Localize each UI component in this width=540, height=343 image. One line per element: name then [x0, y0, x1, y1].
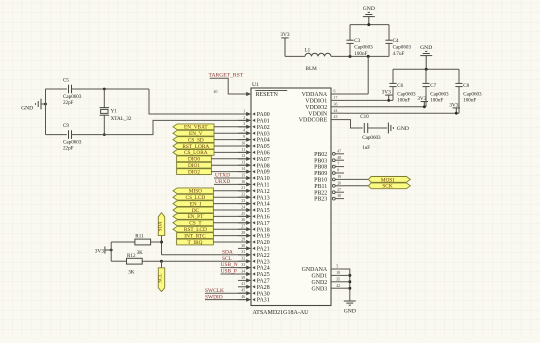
svg-text:GND1: GND1	[311, 274, 327, 280]
svg-text:PA10: PA10	[257, 176, 270, 182]
svg-text:37: 37	[337, 188, 341, 192]
U1 pin 23 PA14	[238, 199, 270, 208]
svg-text:9: 9	[243, 135, 245, 139]
wire XOUT32 to PA01	[72, 120, 247, 134]
svg-text:31: 31	[241, 250, 245, 254]
U1 pin 35 GND2	[311, 277, 344, 286]
U1 pin 10 PA05	[238, 141, 270, 150]
svg-text:PA24: PA24	[257, 266, 270, 272]
svg-text:36: 36	[334, 102, 338, 106]
U1 pin 42 GND3	[311, 284, 344, 293]
svg-text:2: 2	[243, 116, 245, 120]
svg-text:27: 27	[241, 225, 245, 229]
U1 pin 40 RESETN	[214, 90, 288, 98]
svg-text:8: 8	[337, 169, 339, 173]
resistor R12	[127, 253, 143, 275]
capacitor C5	[63, 78, 82, 106]
svg-text:29: 29	[241, 237, 245, 241]
ground GND (decoupling)	[420, 45, 432, 69]
U1 pin 29 PA20	[238, 237, 270, 246]
svg-text:PA18: PA18	[257, 227, 270, 233]
svg-text:C8: C8	[463, 83, 469, 89]
wire RST_LORA to pin	[214, 145, 247, 147]
wire EN_VBAT to pin	[214, 126, 247, 128]
U1 pin 38 PB23	[314, 194, 344, 203]
svg-text:4.7uF: 4.7uF	[393, 51, 405, 57]
svg-text:PA27: PA27	[257, 279, 270, 285]
svg-text:GND2: GND2	[311, 280, 327, 286]
svg-text:6: 6	[334, 90, 336, 94]
U1 pin 11 PA06	[238, 148, 270, 157]
svg-text:C5: C5	[63, 78, 69, 84]
svg-text:Y1: Y1	[111, 108, 118, 114]
wire top rail right	[72, 88, 150, 90]
wire SWDIO to PA31	[205, 299, 247, 301]
wire R11 left lead	[111, 241, 135, 243]
svg-text:GND: GND	[344, 308, 356, 314]
ground GND (bottom)	[344, 301, 356, 314]
junction GND rail	[367, 23, 370, 26]
wire DIO1 to pin	[211, 164, 246, 166]
svg-text:PA31: PA31	[257, 298, 270, 304]
svg-text:13: 13	[241, 161, 245, 165]
svg-text:EN_I: EN_I	[190, 201, 202, 207]
port CS_LCD	[173, 194, 213, 201]
svg-text:DIO0: DIO0	[188, 157, 200, 163]
svg-text:T_IRQ: T_IRQ	[187, 240, 202, 246]
svg-text:26: 26	[241, 218, 245, 222]
capacitor C3	[346, 25, 373, 58]
svg-text:PB10: PB10	[314, 178, 327, 184]
svg-text:PB08: PB08	[314, 165, 327, 171]
svg-text:R12: R12	[127, 253, 136, 259]
svg-text:EN_PT: EN_PT	[187, 214, 204, 220]
svg-text:PA05: PA05	[257, 144, 270, 150]
svg-text:100nF: 100nF	[397, 98, 410, 104]
U1 pin 44 VDDIN	[308, 109, 344, 118]
svg-text:11: 11	[241, 148, 245, 152]
U1 pin 8 PB09	[314, 169, 344, 178]
wire CS_LORA to pin	[214, 151, 247, 153]
U1 pin 25 PA16	[238, 212, 270, 221]
svg-text:R11: R11	[135, 233, 144, 239]
capacitor C7	[422, 69, 449, 107]
U1 pin 12 PA07	[238, 154, 270, 163]
svg-text:28: 28	[241, 231, 245, 235]
U1 pin 37 PB22	[314, 188, 344, 197]
svg-text:24: 24	[241, 205, 245, 209]
ground GND (top)	[363, 6, 375, 25]
U1 pin 45 PA30	[238, 289, 270, 298]
svg-text:PA21: PA21	[257, 247, 270, 253]
U1 pin 39 PA27	[238, 276, 270, 285]
svg-text:18: 18	[336, 271, 340, 275]
svg-text:5: 5	[336, 265, 338, 269]
power 3V3 (C7)	[417, 96, 428, 107]
U1 pin 30 PA21	[238, 244, 270, 253]
svg-text:17: 17	[334, 96, 338, 100]
power 3V3 (pull-ups)	[95, 246, 111, 254]
svg-text:32: 32	[241, 257, 245, 261]
U1 pin 4 PA03	[238, 129, 270, 138]
svg-text:1uF: 1uF	[362, 145, 370, 151]
svg-text:L1: L1	[305, 47, 311, 53]
svg-text:RST_LORA: RST_LORA	[182, 144, 209, 150]
svg-text:41: 41	[241, 282, 245, 286]
junction GND1	[348, 274, 351, 277]
svg-text:4: 4	[243, 129, 245, 133]
svg-text:PA15: PA15	[257, 208, 270, 214]
svg-text:15: 15	[241, 173, 245, 177]
wire bottom rail left	[46, 134, 67, 136]
svg-text:3K: 3K	[128, 269, 135, 275]
wire GNDANA to bus	[344, 269, 350, 301]
svg-text:45: 45	[241, 289, 245, 293]
wire GND2 to bus	[344, 281, 350, 283]
port RST_LORA	[173, 143, 214, 150]
port EN_I	[173, 201, 213, 208]
svg-text:PB02: PB02	[314, 152, 327, 158]
svg-text:PA13: PA13	[257, 195, 270, 201]
junction 3V3-C8	[455, 112, 458, 115]
svg-text:PB09: PB09	[314, 171, 327, 177]
ground GND (crystal, left)	[21, 99, 45, 112]
svg-text:VDDIO2: VDDIO2	[305, 105, 327, 111]
U1 pin 14 PA09	[238, 167, 270, 176]
svg-text:GND: GND	[420, 45, 432, 51]
crystal Y1 XTAL_32	[100, 108, 132, 122]
wire INT_RTC to pin	[213, 235, 246, 237]
svg-text:EN_VBAT: EN_VBAT	[184, 125, 208, 131]
port MISO	[173, 188, 213, 195]
svg-text:34: 34	[241, 269, 245, 273]
svg-text:100nF: 100nF	[430, 98, 443, 104]
capacitor C8	[455, 69, 482, 113]
svg-text:23: 23	[241, 199, 245, 203]
wire SDA to PA22	[162, 254, 247, 256]
junction 3V3-C6	[387, 99, 390, 102]
svg-text:35: 35	[336, 277, 340, 281]
port EN_PT	[173, 214, 213, 221]
U1 pin 31 PA22	[238, 250, 270, 259]
junction R11-SDA	[160, 241, 163, 244]
power 3V3 (top left)	[280, 32, 290, 56]
svg-text:3V3: 3V3	[417, 96, 427, 102]
svg-text:INT_RTC: INT_RTC	[184, 233, 206, 239]
U1 pin 18 GND1	[311, 271, 344, 280]
port DC	[173, 207, 213, 214]
wire R12 left lead	[111, 260, 126, 262]
port CS_T	[173, 220, 213, 227]
IC U1 ATSAMD21G18A-AU body	[251, 82, 331, 316]
svg-text:3V3: 3V3	[95, 248, 105, 254]
junction crystal bottom	[103, 133, 106, 136]
port SDA (vertical)	[158, 213, 164, 236]
svg-text:SCL: SCL	[222, 256, 232, 262]
svg-text:7: 7	[337, 162, 339, 166]
U1 pin 2 PA01	[238, 116, 270, 125]
svg-text:PA03: PA03	[257, 131, 270, 137]
port EN_V	[173, 130, 214, 137]
U1 pin 17 VDDIO1	[305, 96, 344, 105]
svg-text:PA25: PA25	[257, 272, 270, 278]
svg-text:TARGET_RST: TARGET_RST	[209, 73, 244, 79]
junction crystal top	[103, 88, 106, 91]
svg-text:PA00: PA00	[257, 112, 270, 118]
svg-text:CS_LCD: CS_LCD	[186, 195, 206, 201]
svg-text:GND: GND	[21, 106, 33, 112]
svg-text:PA19: PA19	[257, 234, 270, 240]
U1 pin 7 PB08	[314, 162, 344, 171]
svg-text:PA20: PA20	[257, 240, 270, 246]
U1 pin 16 PA11	[238, 180, 270, 189]
wire SCL flag stem	[161, 261, 163, 268]
svg-text:Cap0603: Cap0603	[463, 91, 482, 97]
U1 pin 21 PA12	[238, 186, 270, 195]
svg-text:10: 10	[241, 141, 245, 145]
capacitor C4	[385, 25, 411, 58]
svg-text:VDDIN: VDDIN	[308, 111, 328, 117]
U1 pin 9 PA04	[238, 135, 270, 144]
port RST_LCD	[173, 226, 213, 233]
svg-text:22pF: 22pF	[63, 100, 74, 106]
wire URXD to PA11	[214, 183, 247, 185]
junction decoupling GND	[425, 68, 428, 71]
wire PB11 to SCK	[344, 185, 368, 187]
svg-text:39: 39	[241, 276, 245, 280]
svg-text:GND: GND	[363, 6, 375, 12]
wire crystal top lead	[103, 89, 105, 108]
U1 pin 26 PA17	[238, 218, 270, 227]
svg-text:VDDANA: VDDANA	[302, 92, 328, 98]
resistor R11	[135, 233, 151, 256]
svg-text:PA16: PA16	[257, 215, 270, 221]
svg-text:19: 19	[337, 175, 341, 179]
svg-text:3: 3	[243, 122, 245, 126]
wire VDDIO2 rail	[344, 106, 426, 108]
junction 3V3-C7	[423, 105, 426, 108]
wire SDA flag stem	[161, 236, 163, 255]
U1 pin 41 PA28	[238, 282, 270, 291]
svg-text:Cap0603: Cap0603	[430, 91, 449, 97]
wire pull-up riser	[110, 242, 112, 261]
U1 pin 22 PA13	[238, 193, 270, 202]
U1 pin 3 PA02	[238, 122, 270, 131]
svg-text:38: 38	[337, 194, 341, 198]
svg-text:3V3: 3V3	[382, 90, 392, 96]
svg-text:40: 40	[214, 90, 218, 94]
svg-text:EN_V: EN_V	[189, 131, 203, 137]
svg-text:PA02: PA02	[257, 125, 270, 131]
U1 pin 47 PB02	[314, 149, 344, 158]
wire DIO0 to pin	[211, 158, 246, 160]
wire R11 right lead	[151, 241, 162, 243]
svg-text:RESETN: RESETN	[256, 92, 279, 98]
wire T_IRQ to pin	[213, 241, 246, 243]
svg-text:PA01: PA01	[257, 119, 270, 125]
svg-text:C7: C7	[430, 83, 436, 89]
svg-text:PA04: PA04	[257, 138, 270, 144]
svg-text:22: 22	[241, 193, 245, 197]
svg-text:PA30: PA30	[257, 291, 270, 297]
U1 pin 27 PA18	[238, 225, 270, 234]
U1 pin 13 PA08	[238, 161, 270, 170]
wire XIN32 to PA00	[149, 89, 246, 114]
svg-text:12: 12	[241, 154, 245, 158]
junction C3 bottom	[349, 55, 352, 58]
port CS_LORA	[173, 150, 214, 157]
svg-text:GND: GND	[397, 126, 409, 132]
wire PB10 to MOSI	[344, 178, 368, 180]
wire CS_SD to pin	[214, 139, 247, 141]
ground GND (C10, right)	[388, 123, 409, 134]
svg-text:PB03: PB03	[314, 158, 327, 164]
svg-text:30: 30	[241, 244, 245, 248]
port MOSI	[368, 177, 410, 184]
svg-text:BLM: BLM	[306, 66, 318, 72]
svg-text:MOSI: MOSI	[381, 177, 394, 183]
svg-text:C3: C3	[354, 38, 360, 44]
capacitor C6	[389, 69, 416, 103]
svg-text:GND3: GND3	[311, 286, 327, 292]
U1 pin 1 PA00	[238, 109, 270, 118]
svg-text:C6: C6	[397, 83, 403, 89]
svg-text:SDA: SDA	[222, 249, 233, 255]
power 3V3 (C8)	[449, 102, 460, 113]
U1 pin 28 PA19	[238, 231, 270, 240]
junction GND3	[348, 287, 351, 290]
wire CS_LCD to pin	[213, 196, 246, 198]
wire EN_I to pin	[213, 203, 246, 205]
svg-text:Cap0603: Cap0603	[354, 45, 373, 51]
wire EN_PT to pin	[213, 215, 246, 217]
wire crystal bottom lead	[103, 115, 105, 134]
U1 pin 24 PA15	[238, 205, 270, 214]
wire VDDIO1 rail	[344, 99, 393, 101]
svg-text:DC: DC	[192, 208, 200, 214]
svg-text:DIO2: DIO2	[188, 169, 200, 175]
svg-text:14: 14	[241, 167, 245, 171]
svg-text:16: 16	[241, 180, 245, 184]
wire L1 to C3/C4 rail	[331, 55, 389, 57]
wire C10 to GND	[368, 127, 388, 129]
wire GND1 to bus	[344, 274, 350, 276]
svg-text:C9: C9	[63, 123, 69, 129]
U1 pin 20 PB11	[314, 181, 344, 190]
port T_IRQ	[177, 239, 214, 246]
svg-text:PB11: PB11	[314, 184, 327, 190]
svg-text:100nF: 100nF	[463, 98, 476, 104]
wire TARGET_RST to RESETN	[210, 78, 247, 94]
svg-text:PA06: PA06	[257, 151, 270, 157]
svg-text:Cap0603: Cap0603	[393, 45, 412, 51]
wire R12 right lead	[142, 260, 161, 262]
wire SCL to PA23	[162, 260, 247, 262]
U1 pin 15 PA10	[238, 173, 270, 182]
svg-text:GNDANA: GNDANA	[302, 267, 328, 273]
wire VDDANA to riser	[344, 93, 368, 95]
svg-text:PB22: PB22	[314, 190, 327, 196]
svg-text:DIO1: DIO1	[188, 163, 200, 169]
wire CS_T to pin	[213, 222, 246, 224]
junction GND-bus	[44, 103, 47, 106]
svg-text:CS_SD: CS_SD	[188, 137, 204, 143]
wire USB_N to PA24	[221, 267, 247, 269]
svg-text:22pF: 22pF	[63, 145, 74, 151]
junction GND2	[348, 280, 351, 283]
svg-text:48: 48	[337, 156, 341, 160]
capacitor C10	[360, 114, 381, 151]
svg-text:100nF: 100nF	[354, 51, 367, 57]
svg-text:RST_LCD: RST_LCD	[184, 227, 207, 233]
svg-text:46: 46	[241, 295, 245, 299]
svg-text:33: 33	[241, 263, 245, 267]
U1 pin 36 VDDIO2	[305, 102, 344, 111]
wire top rail left	[46, 88, 67, 90]
wire USB_P to PA25	[221, 273, 247, 275]
svg-text:PA09: PA09	[257, 170, 270, 176]
svg-text:CS_T: CS_T	[189, 221, 202, 227]
port EN_VBAT	[173, 124, 214, 131]
port DIO1	[177, 162, 212, 169]
wire UTXD to PA10	[214, 177, 247, 179]
svg-text:20: 20	[337, 181, 341, 185]
svg-text:44: 44	[334, 109, 338, 113]
svg-text:PA23: PA23	[257, 259, 270, 265]
svg-text:21: 21	[241, 186, 245, 190]
svg-text:42: 42	[336, 284, 340, 288]
wire GND3 to bus	[344, 287, 350, 289]
svg-text:PA22: PA22	[257, 253, 270, 259]
capacitor C9	[63, 123, 82, 151]
svg-text:47: 47	[337, 149, 341, 153]
wire GND rail (C3-C4)	[350, 24, 389, 26]
U1 pin 33 PA24	[238, 263, 270, 272]
port SCK	[368, 183, 410, 190]
svg-text:PA14: PA14	[257, 202, 270, 208]
U1 pin 48 PB03	[314, 156, 344, 165]
svg-text:XTAL_32: XTAL_32	[111, 116, 132, 122]
svg-text:25: 25	[241, 212, 245, 216]
wire 3V3 to L1	[285, 55, 305, 57]
svg-text:ATSAMD21G18A-AU: ATSAMD21G18A-AU	[253, 310, 310, 316]
wire DIO2 to pin	[211, 171, 246, 173]
wire VDDCORE to C10	[344, 120, 363, 128]
U1 pin 32 PA23	[238, 257, 270, 266]
svg-text:PA08: PA08	[257, 163, 270, 169]
svg-text:VDDIO1: VDDIO1	[305, 99, 327, 105]
port CS_SD	[173, 137, 214, 144]
wire RST_LCD to pin	[213, 228, 246, 230]
port DIO2	[177, 169, 212, 176]
svg-text:U1: U1	[252, 82, 259, 88]
svg-text:PA07: PA07	[257, 157, 270, 163]
svg-text:PA11: PA11	[257, 183, 270, 189]
svg-text:PA12: PA12	[257, 189, 270, 195]
U1 pin 5 GNDANA	[302, 265, 344, 274]
wire DC to pin	[213, 209, 246, 211]
wire decoupling top rail	[393, 68, 459, 70]
svg-text:3K: 3K	[137, 250, 144, 256]
svg-text:43: 43	[334, 115, 338, 119]
svg-text:C10: C10	[360, 114, 369, 120]
svg-text:SCK: SCK	[382, 184, 392, 190]
svg-text:SCL: SCL	[159, 274, 164, 283]
U1 pin 43 VDDCORE	[299, 115, 344, 124]
U1 pin 6 VDDANA	[302, 90, 344, 99]
junction 3V3 riser	[110, 249, 113, 252]
svg-text:PA28: PA28	[257, 285, 270, 291]
